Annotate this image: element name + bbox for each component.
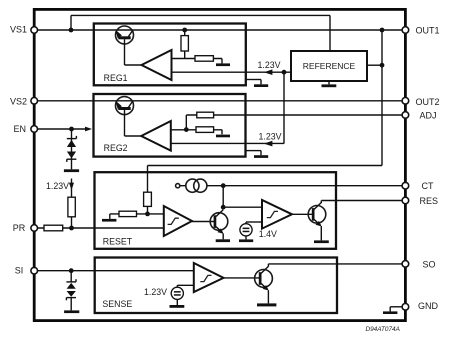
svg-text:REFERENCE: REFERENCE: [303, 61, 356, 71]
svg-text:1.23V: 1.23V: [46, 181, 69, 191]
svg-text:1.23V: 1.23V: [144, 287, 167, 297]
svg-text:OUT1: OUT1: [416, 25, 440, 35]
svg-text:CT: CT: [422, 181, 434, 191]
svg-text:D94AT074A: D94AT074A: [366, 326, 400, 333]
svg-text:SO: SO: [423, 259, 436, 269]
svg-text:VS2: VS2: [10, 97, 27, 107]
svg-text:GND: GND: [418, 301, 439, 311]
svg-text:EN: EN: [14, 124, 27, 134]
svg-text:1.23V: 1.23V: [259, 131, 282, 141]
svg-text:RESET: RESET: [103, 237, 133, 247]
svg-text:VS1: VS1: [10, 24, 27, 34]
svg-text:RES: RES: [420, 196, 439, 206]
svg-text:1.4V: 1.4V: [259, 229, 277, 239]
svg-text:1.23V: 1.23V: [258, 60, 281, 70]
svg-text:REG2: REG2: [104, 143, 128, 153]
svg-text:REG1: REG1: [104, 73, 128, 83]
svg-text:SENSE: SENSE: [102, 299, 132, 309]
svg-text:ADJ: ADJ: [420, 110, 437, 120]
svg-text:OUT2: OUT2: [416, 97, 440, 107]
svg-text:SI: SI: [15, 266, 24, 276]
svg-text:PR: PR: [13, 223, 26, 233]
